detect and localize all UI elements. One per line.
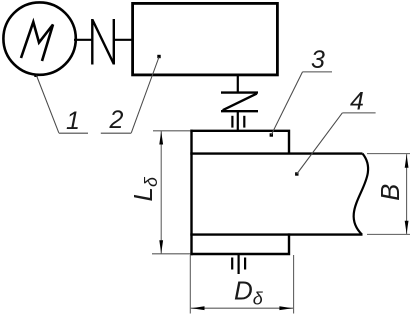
leader dot 3 (270, 133, 273, 136)
label 2 underline (101, 132, 132, 134)
elastic element Z diagonal (223, 94, 257, 111)
coupling diagonal (92, 20, 114, 65)
leader line 3 (271, 72, 302, 135)
drum body 4 left edge (190, 130, 192, 256)
dimension B arrow up (405, 155, 409, 168)
hub bearing bar left bottom (231, 258, 233, 270)
dimension B extension bottom (367, 233, 410, 235)
gearbox box 2 (133, 3, 278, 75)
label 3 underline (303, 71, 333, 73)
axis stub below flange (238, 255, 240, 274)
wire vertical shaft below box 2 (237, 75, 239, 94)
leader dot 1 (34, 74, 37, 77)
svg-text:1: 1 (66, 107, 80, 135)
drum body 4 top edge (190, 152, 362, 154)
drum flange top 3 (190, 130, 290, 154)
motor M1 circle (3, 2, 75, 74)
dimension Lb arrow up (159, 131, 163, 144)
motor letter M (21, 22, 53, 61)
dimension B line (406, 154, 408, 234)
drum body 4 break wavy line (354, 154, 368, 235)
wire shaft coupling to gearbox (114, 39, 133, 41)
label 1 underline (59, 132, 88, 134)
leader dot 4 (295, 172, 298, 175)
svg-text:3: 3 (311, 46, 325, 74)
svg-text:B: B (377, 184, 405, 201)
dimension B extension top (367, 153, 410, 155)
dimension Lb extension top (153, 130, 191, 132)
dimension Lb arrow down (159, 240, 163, 253)
dimension Lb extension bottom (152, 253, 191, 255)
leader dot 2 (157, 55, 160, 58)
drum body 4 bottom edge (190, 233, 362, 235)
dimension Lb line (160, 131, 162, 254)
svg-text:4: 4 (350, 88, 364, 116)
svg-text:2: 2 (109, 106, 124, 134)
dimension Db line (191, 307, 293, 309)
leader line 4 (297, 113, 343, 174)
dimension Db extension left (189, 255, 191, 314)
label 4 underline (342, 112, 375, 114)
coupling right bar (113, 19, 115, 65)
leader line 1 (37, 76, 59, 133)
hub bearing bar left top (231, 116, 233, 128)
dimension B arrow down (405, 221, 409, 234)
leader line 2 (131, 57, 159, 133)
drum flange bottom (190, 233, 290, 255)
dimension Db arrow right (279, 306, 292, 310)
wire vertical shaft Z to hub (237, 111, 239, 131)
dimension Db arrow left (191, 306, 204, 310)
elastic element Z bottom bar (221, 110, 258, 112)
dimension Db extension right (293, 255, 295, 314)
elastic element Z top bar (221, 91, 258, 93)
wire shaft motor to coupling (74, 39, 92, 41)
hub bearing bar right bottom (244, 258, 246, 270)
coupling left bar (91, 19, 93, 65)
hub bearing bar right top (243, 116, 245, 128)
